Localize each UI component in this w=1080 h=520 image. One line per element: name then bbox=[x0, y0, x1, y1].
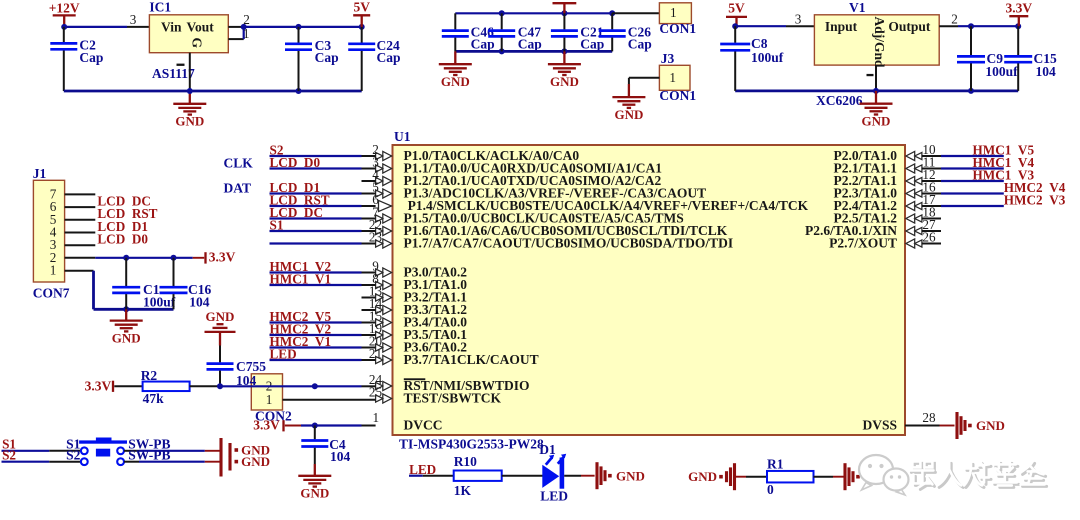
resistor R10 1K bbox=[454, 454, 502, 498]
U1 pin 25 TEST row bbox=[369, 385, 502, 406]
capacitor C7 bbox=[207, 346, 234, 387]
svg-text:3.3V: 3.3V bbox=[85, 379, 112, 394]
C15 labels bbox=[1034, 51, 1057, 79]
svg-text:HMC1 V1: HMC1 V1 bbox=[270, 271, 332, 286]
C47 labels bbox=[518, 24, 542, 51]
resistor R2 47k bbox=[141, 368, 190, 406]
svg-text:100uf: 100uf bbox=[751, 50, 784, 65]
ground under C21 bbox=[548, 51, 581, 89]
IC1 pin 2 loop bbox=[228, 12, 249, 41]
RST net wire bbox=[190, 383, 376, 389]
C46 labels bbox=[471, 24, 495, 51]
svg-text:3.3V: 3.3V bbox=[1005, 1, 1032, 16]
svg-text:Cap: Cap bbox=[518, 37, 542, 52]
svg-text:CON1: CON1 bbox=[659, 88, 696, 103]
svg-text:R10: R10 bbox=[454, 454, 477, 469]
svg-text:GND: GND bbox=[976, 418, 1005, 433]
svg-text:1: 1 bbox=[50, 263, 57, 278]
U1 pin 1 DVCC bbox=[301, 410, 443, 433]
connector J3 bbox=[659, 51, 696, 103]
ground under IC1 bbox=[173, 91, 206, 129]
gnd at D1 bbox=[597, 462, 645, 489]
power 3.3V at DVCC bbox=[253, 418, 301, 433]
svg-text:TEST/SBWTCK: TEST/SBWTCK bbox=[404, 391, 502, 406]
svg-text:Vout: Vout bbox=[187, 19, 215, 34]
svg-text:LCD D0: LCD D0 bbox=[270, 155, 321, 170]
C4 labels bbox=[329, 437, 350, 464]
resistor R1 0 bbox=[767, 456, 814, 497]
U1 pin 27 row P2.6 bbox=[805, 217, 941, 238]
svg-text:104: 104 bbox=[330, 449, 351, 464]
C9 labels bbox=[985, 51, 1018, 79]
U1 pin 6 row P1.4 bbox=[270, 192, 809, 213]
svg-text:3: 3 bbox=[795, 11, 802, 26]
U1 pin 22 row P1.6 bbox=[270, 217, 728, 238]
J1 pin1 wire down bbox=[65, 271, 174, 313]
svg-text:1: 1 bbox=[373, 410, 380, 425]
gnd above C7 (facing down) bbox=[205, 309, 236, 346]
diode D1 LED bbox=[539, 442, 568, 504]
wire J3 to gnd bbox=[629, 78, 660, 84]
C1 labels bbox=[143, 282, 176, 310]
capacitor C8 bbox=[720, 26, 750, 91]
svg-text:V1: V1 bbox=[849, 0, 866, 15]
svg-text:GND: GND bbox=[441, 74, 470, 89]
switch S2 SW-PB bbox=[66, 448, 170, 466]
wire R1 to gnd bbox=[814, 476, 844, 478]
U1 pin 8 row P3.1 bbox=[270, 271, 468, 292]
capacitor C9 bbox=[957, 26, 985, 91]
U1 pin 23 row P1.7 bbox=[270, 230, 734, 251]
gnd at DVSS bbox=[957, 412, 1005, 439]
U1 pin 13 row P3.2 bbox=[362, 284, 468, 305]
power 5V (V1) bbox=[726, 1, 747, 27]
svg-text:XC6206: XC6206 bbox=[816, 93, 863, 108]
svg-text:CON7: CON7 bbox=[33, 285, 70, 300]
ground under V1 bbox=[860, 91, 893, 128]
svg-text:47k: 47k bbox=[143, 391, 165, 406]
wire +12V to IC1 pin 3 bbox=[61, 24, 149, 30]
svg-text:GND: GND bbox=[862, 113, 891, 128]
svg-text:1K: 1K bbox=[454, 483, 472, 498]
capacitor C2 bbox=[50, 27, 77, 91]
U1 pin 17 row P2.4 bbox=[834, 192, 1066, 213]
mcu U1 MSP430G2553 body bbox=[393, 129, 906, 451]
svg-text:104: 104 bbox=[189, 295, 210, 310]
svg-text:1: 1 bbox=[669, 70, 676, 85]
capacitor C16 bbox=[160, 258, 188, 310]
capacitor C26 bbox=[599, 13, 626, 51]
svg-text:Cap: Cap bbox=[377, 50, 401, 65]
regulator IC1 AS1117 bbox=[149, 0, 228, 81]
svg-text:Vin: Vin bbox=[161, 19, 182, 34]
svg-text:Adj/Gnd: Adj/Gnd bbox=[872, 17, 887, 69]
svg-text:CON1: CON1 bbox=[659, 21, 696, 36]
U1 pin 14 row P3.3 bbox=[362, 296, 468, 317]
svg-text:3.3V: 3.3V bbox=[253, 418, 280, 433]
watermark text 嵌入式基地 bbox=[911, 463, 1046, 489]
CON2 pin1 wire to TEST bbox=[283, 399, 376, 401]
net label S2 bbox=[2, 448, 81, 463]
switch S1 SW-PB bbox=[66, 437, 170, 454]
svg-text:0: 0 bbox=[767, 482, 774, 497]
svg-text:HMC2 V3: HMC2 V3 bbox=[1004, 192, 1066, 207]
svg-text:DVSS: DVSS bbox=[862, 418, 897, 433]
U1 pin 7 row P1.5 bbox=[270, 205, 684, 226]
wire 5V to V1 pin 3 bbox=[732, 23, 814, 29]
gnd bars for S1/S2 bbox=[221, 438, 270, 477]
C7 labels bbox=[236, 359, 266, 388]
svg-text:C755: C755 bbox=[236, 359, 266, 374]
capacitor C47 bbox=[488, 13, 515, 51]
ground under C1 bbox=[110, 309, 143, 345]
svg-text:GND: GND bbox=[688, 469, 717, 484]
wire S2 to gnd bbox=[124, 461, 220, 463]
svg-text:2: 2 bbox=[951, 11, 958, 26]
wire R10 to D1 bbox=[502, 475, 543, 477]
svg-text:G: G bbox=[190, 38, 205, 49]
gnd right of R1 bbox=[845, 463, 891, 490]
svg-text:C8: C8 bbox=[751, 36, 768, 51]
net labels LCD DC/RST/D1/D0 bbox=[97, 193, 157, 246]
svg-text:Cap: Cap bbox=[79, 50, 103, 65]
gnd left of R1 bbox=[688, 463, 746, 490]
V1 gnd pin bbox=[867, 65, 877, 91]
svg-text:D1: D1 bbox=[539, 442, 556, 457]
U1 pin 10 row P2.0 bbox=[834, 142, 1035, 163]
svg-text:1: 1 bbox=[670, 5, 677, 20]
C3 labels bbox=[315, 38, 339, 65]
power bar (cropped) above C21 bbox=[553, 3, 577, 13]
svg-text:J3: J3 bbox=[661, 51, 675, 66]
connector CON1 top bbox=[659, 3, 696, 36]
ground under C4 bbox=[298, 464, 331, 501]
svg-text:GND: GND bbox=[112, 330, 141, 345]
C2 labels bbox=[79, 38, 103, 65]
U1 pin 15 row P3.4 bbox=[270, 309, 468, 330]
svg-text:DVCC: DVCC bbox=[404, 418, 443, 433]
svg-text:P1.7/A7/CA7/CAOUT/UCB0SIMO/UCB: P1.7/A7/CA7/CAOUT/UCB0SIMO/UCB0SDA/TDO/T… bbox=[404, 236, 734, 251]
svg-text:P2.7/XOUT: P2.7/XOUT bbox=[829, 236, 897, 251]
svg-text:5V: 5V bbox=[353, 0, 370, 15]
U1 pin 28 DVSS bbox=[862, 410, 954, 433]
svg-text:AS1117: AS1117 bbox=[152, 66, 195, 81]
C24 labels bbox=[377, 38, 401, 65]
svg-text:3: 3 bbox=[130, 12, 137, 27]
wire gnd to R1 bbox=[746, 476, 767, 478]
svg-text:Cap: Cap bbox=[315, 50, 339, 65]
U1 pin 18 row P2.5 bbox=[834, 205, 942, 226]
C16 labels bbox=[188, 282, 211, 310]
svg-text:1: 1 bbox=[243, 26, 250, 41]
J1 pin2 wire to 3.3V bbox=[65, 250, 236, 265]
watermark wechat logo bbox=[859, 455, 909, 495]
svg-text:2: 2 bbox=[243, 12, 250, 27]
U1 pin 11 row P2.1 bbox=[834, 155, 1035, 176]
U1 pin 20 row P3.6 bbox=[270, 334, 468, 355]
U1 pin 5 row P1.3 bbox=[270, 180, 707, 201]
U1 pin 2 row P1.0 bbox=[270, 142, 580, 163]
U1 pin 4 row P1.2 bbox=[362, 167, 662, 188]
connector CON2 body bbox=[251, 374, 292, 424]
wire 5V rail top-left bbox=[244, 24, 365, 30]
svg-text:U1: U1 bbox=[394, 129, 411, 144]
U1 pin 3 row P1.1 bbox=[270, 155, 663, 176]
svg-text:GND: GND bbox=[206, 309, 235, 324]
U1 pin 26 row P2.7 bbox=[829, 230, 941, 251]
C26 labels bbox=[628, 24, 652, 51]
IC1 gnd pin bbox=[177, 53, 190, 91]
svg-text:LED: LED bbox=[270, 346, 297, 361]
capacitor C21 bbox=[551, 13, 578, 51]
svg-text:104: 104 bbox=[1036, 64, 1057, 79]
svg-text:P3.7/TA1CLK/CAOUT: P3.7/TA1CLK/CAOUT bbox=[404, 352, 539, 367]
svg-text:Output: Output bbox=[888, 19, 931, 34]
svg-text:5V: 5V bbox=[728, 1, 745, 16]
svg-text:S2: S2 bbox=[66, 448, 81, 463]
gnd rail bottom-left bbox=[64, 88, 362, 94]
svg-text:LED: LED bbox=[540, 488, 568, 503]
U1 pin 21 row P3.7 bbox=[270, 346, 539, 367]
svg-text:Input: Input bbox=[825, 19, 858, 34]
ground under J3 bbox=[612, 84, 645, 122]
svg-text:1: 1 bbox=[266, 392, 273, 407]
gnd rail top-right bbox=[735, 88, 1018, 94]
svg-text:TI-MSP430G2553-PW28: TI-MSP430G2553-PW28 bbox=[399, 436, 544, 451]
svg-text:CLK: CLK bbox=[224, 156, 254, 171]
wire 5V bus top-middle bbox=[455, 10, 659, 16]
C21 labels bbox=[580, 24, 604, 51]
svg-text:S2: S2 bbox=[2, 448, 16, 463]
svg-text:SW-PB: SW-PB bbox=[128, 448, 170, 463]
V1 pin 2 wire bbox=[939, 23, 1021, 29]
capacitor C15 bbox=[1004, 26, 1032, 91]
svg-text:S1: S1 bbox=[270, 217, 284, 232]
svg-text:J1: J1 bbox=[33, 166, 47, 181]
capacitor C46 bbox=[442, 13, 469, 51]
svg-text:GND: GND bbox=[175, 114, 204, 129]
svg-text:IC1: IC1 bbox=[149, 0, 171, 15]
switch actuator bbox=[79, 438, 127, 457]
svg-text:Cap: Cap bbox=[628, 37, 652, 52]
net label S1 bbox=[2, 437, 81, 452]
svg-text:GND: GND bbox=[616, 468, 645, 483]
svg-text:R2: R2 bbox=[141, 368, 158, 383]
power 3.3V at R2 bbox=[85, 379, 143, 394]
wire D1 to gnd bbox=[564, 475, 594, 477]
svg-text:GND: GND bbox=[300, 486, 329, 501]
power 3.3V bbox=[1005, 1, 1032, 27]
svg-text:DAT: DAT bbox=[224, 181, 252, 196]
C8 labels bbox=[751, 36, 784, 65]
U1 pin 24 RST row bbox=[369, 372, 530, 393]
svg-text:+12V: +12V bbox=[49, 0, 80, 15]
U1 pin 16 row P2.3 bbox=[834, 180, 1066, 201]
capacitor C4 bbox=[301, 426, 328, 465]
svg-text:3.3V: 3.3V bbox=[209, 250, 236, 265]
ground under C46 bbox=[439, 51, 472, 89]
J1 pin stubs 7..3 bbox=[65, 194, 96, 245]
capacitor C3 bbox=[285, 27, 312, 91]
gnd rail top-middle bbox=[455, 48, 612, 54]
U1 pin 19 row P3.5 bbox=[270, 321, 468, 342]
svg-text:100uf: 100uf bbox=[143, 295, 176, 310]
capacitor C1 bbox=[112, 258, 140, 310]
svg-text:Cap: Cap bbox=[471, 37, 495, 52]
wire S1 to gnd bbox=[124, 450, 220, 452]
regulator V1 XC6206 bbox=[814, 0, 939, 108]
power 5V bbox=[353, 0, 370, 27]
svg-text:26: 26 bbox=[922, 230, 936, 245]
svg-text:GND: GND bbox=[241, 454, 270, 469]
svg-text:GND: GND bbox=[550, 74, 579, 89]
net label LED bbox=[409, 462, 454, 477]
connector J1 CON7 bbox=[33, 166, 70, 300]
svg-text:100uf: 100uf bbox=[985, 64, 1018, 79]
svg-text:R1: R1 bbox=[767, 456, 784, 471]
svg-text:Cap: Cap bbox=[580, 37, 604, 52]
power +12V bbox=[49, 0, 80, 27]
svg-text:LCD D0: LCD D0 bbox=[97, 232, 148, 247]
svg-text:28: 28 bbox=[922, 410, 936, 425]
svg-text:GND: GND bbox=[614, 107, 643, 122]
U1 pin 12 row P2.2 bbox=[834, 167, 1035, 188]
U1 pin 9 row P3.0 bbox=[270, 259, 468, 280]
capacitor C24 bbox=[348, 27, 375, 91]
